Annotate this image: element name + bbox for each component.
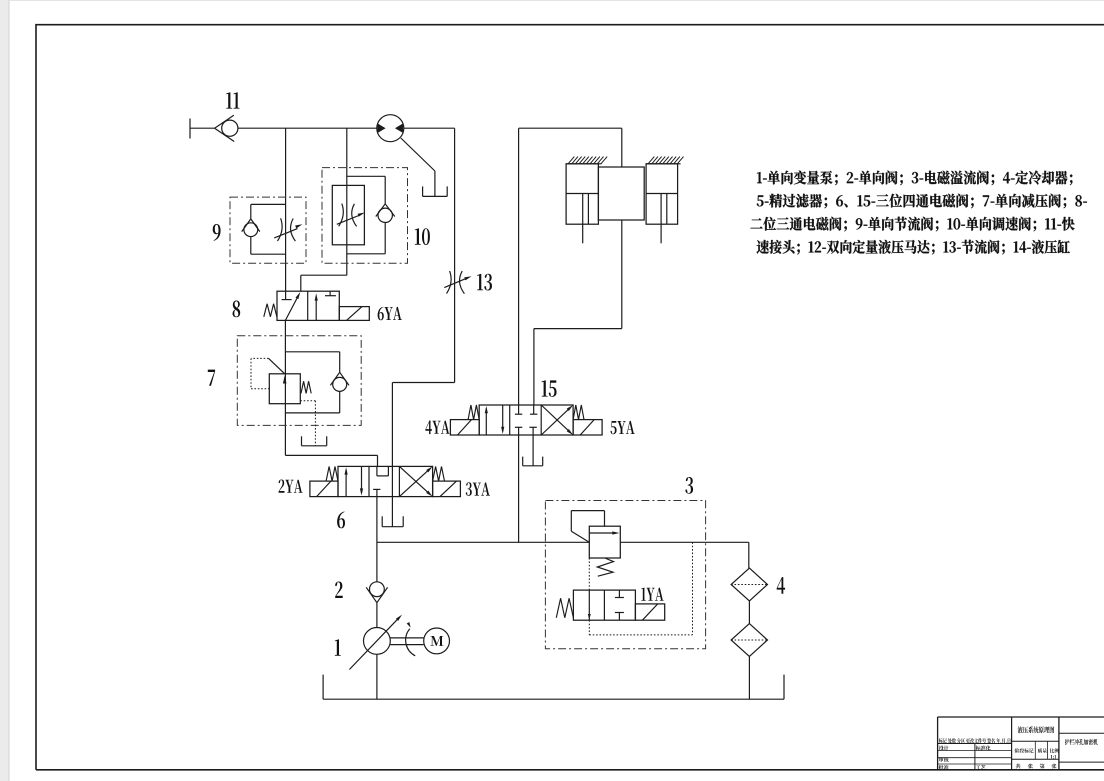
cylinder right anchor hatch xyxy=(646,163,681,165)
cylinder 14 left barrel xyxy=(566,164,598,224)
valve 9 loop xyxy=(251,203,286,205)
cylinder 14 right barrel xyxy=(646,164,678,224)
label 7 xyxy=(208,370,215,386)
title block outer xyxy=(937,717,939,770)
cylinder centre block xyxy=(598,167,644,220)
legend line 4 xyxy=(757,240,1070,255)
title block mid rows xyxy=(1012,740,1059,742)
cooler diamond 4a xyxy=(731,568,767,601)
valve 8 left pos diagonal xyxy=(285,295,298,320)
legend line 3 xyxy=(751,217,1075,232)
valve 15 left pos arrows xyxy=(485,409,487,435)
label 8 xyxy=(233,301,241,318)
valve 15 T tank xyxy=(532,435,534,466)
label 6YA xyxy=(378,307,402,321)
valve 15 right pos cross xyxy=(541,408,570,435)
cylinder top pipe xyxy=(519,127,622,129)
check valve 2 xyxy=(370,582,385,597)
motor drain wire xyxy=(401,138,435,171)
reducing valve spring xyxy=(301,381,311,393)
check valve in 9 xyxy=(242,219,251,232)
enclosure box 7 xyxy=(237,336,361,426)
tank under 7 xyxy=(301,436,303,446)
check valve in 10 xyxy=(376,204,385,217)
enclosure box 10 xyxy=(322,168,408,264)
label 2 xyxy=(335,582,343,599)
label 13 xyxy=(477,274,492,291)
label 6 xyxy=(337,512,345,529)
relief drain dotted xyxy=(588,558,590,590)
valve 6 centre symbols xyxy=(376,466,378,476)
hydraulic motor 12 xyxy=(377,115,404,142)
valve 8 body xyxy=(277,291,339,320)
label 4YA xyxy=(425,421,449,435)
tank under 6 xyxy=(381,516,383,526)
title cells xyxy=(939,746,949,751)
tank manifold xyxy=(322,675,324,700)
legend line 2 xyxy=(757,194,1087,209)
wire through valve 6 to tank xyxy=(391,466,393,526)
valve 6 left pos arrows xyxy=(345,470,347,497)
wire xyxy=(454,128,456,382)
label 4 xyxy=(777,577,785,594)
label M xyxy=(430,636,443,646)
wire xyxy=(748,601,750,624)
pilot drain loop xyxy=(588,620,590,635)
cooler diamond 4b xyxy=(731,624,767,657)
relief pilot xyxy=(604,511,606,527)
title block right rows xyxy=(1059,732,1104,734)
valve 15 B wire xyxy=(533,329,535,405)
valve 6 body xyxy=(338,466,433,496)
valve 15 body xyxy=(479,405,573,435)
label 11 xyxy=(226,92,239,108)
left gray strip xyxy=(0,0,9,781)
quick coupler 11 xyxy=(215,115,234,128)
reducing valve pilot xyxy=(269,358,285,373)
valve 6 right spring xyxy=(433,467,445,482)
rotation arc xyxy=(406,629,416,656)
label 1YA xyxy=(641,588,663,601)
valve 6 right pos cross xyxy=(399,469,429,496)
label 10 xyxy=(415,228,430,245)
label 15 xyxy=(542,380,557,397)
valve 15 right spring xyxy=(573,405,584,420)
reducing valve square xyxy=(269,374,300,404)
valve 10 loop xyxy=(347,175,385,177)
wire xyxy=(748,656,750,699)
title block left rows xyxy=(938,743,1012,745)
valve 8 right pos blocked xyxy=(329,291,331,296)
valve 15 centre blocked ports xyxy=(518,405,520,414)
valve 15 A wire xyxy=(518,128,520,405)
valve 8 spring xyxy=(264,304,277,317)
wire jog xyxy=(392,382,454,384)
label 9 xyxy=(213,224,221,241)
label 1 xyxy=(335,639,341,655)
valve 15 solenoid 5YA xyxy=(573,420,602,435)
drain line 7 xyxy=(300,400,315,402)
cylinder left anchor hatch xyxy=(566,163,601,165)
label 3 xyxy=(685,477,693,494)
valve 15 P wire xyxy=(518,435,520,542)
valve 8 solenoid 6YA box xyxy=(339,307,369,321)
trunk line xyxy=(377,541,589,543)
valve 6 solenoid 3YA xyxy=(433,481,461,497)
label 5YA xyxy=(611,421,635,434)
relief valve square xyxy=(589,526,620,558)
legend line 1 xyxy=(757,171,1072,186)
valve 15 solenoid 4YA xyxy=(450,420,479,435)
valve 15 left spring xyxy=(468,405,479,420)
valve 1YA right pos blocked xyxy=(618,590,620,597)
throttle valve 13 xyxy=(447,271,452,294)
electric motor M xyxy=(424,628,450,654)
cylinder right rod xyxy=(660,194,662,244)
valve 8 right pos arrow xyxy=(315,297,317,320)
valve 1YA spring xyxy=(556,598,573,618)
wire xyxy=(376,497,378,582)
valve 1YA solenoid box xyxy=(635,604,664,620)
wire xyxy=(376,603,378,628)
solenoid valve 1YA body xyxy=(573,590,635,620)
valve 8 left pos blocked port xyxy=(285,291,287,299)
title block verticals xyxy=(1011,717,1013,770)
title small row xyxy=(939,738,1011,743)
cylinder left rod xyxy=(582,194,584,244)
relief valve arrow xyxy=(589,532,614,534)
enclosure box 3 xyxy=(545,501,705,649)
wire xyxy=(238,127,377,129)
throttle in 9 xyxy=(278,218,283,241)
throttle in 10 xyxy=(339,204,344,227)
valve 1YA left pos through line xyxy=(588,590,590,620)
wire xyxy=(284,320,286,455)
relief spring xyxy=(597,558,613,576)
valve 6 left spring xyxy=(326,467,338,482)
pump variable arrow xyxy=(349,619,397,669)
pump 1 circle xyxy=(364,628,391,655)
label 2YA xyxy=(279,480,303,493)
check valve branch in 7 xyxy=(285,351,339,353)
quick coupler 11 end tick xyxy=(189,119,191,139)
pump shaft xyxy=(390,637,423,639)
wire xyxy=(376,654,378,699)
wire xyxy=(285,128,287,291)
page top edge xyxy=(9,0,1104,2)
wire xyxy=(404,127,455,129)
speed valve rect in 10 xyxy=(332,185,364,244)
wire xyxy=(346,128,348,275)
tank under motor xyxy=(422,186,424,196)
wire xyxy=(190,127,215,129)
enclosure box 9 xyxy=(230,197,306,263)
valve 6 solenoid 2YA xyxy=(310,481,338,497)
title text xyxy=(1018,726,1055,733)
wire xyxy=(285,454,377,456)
reducing valve arrow xyxy=(283,376,287,384)
label 3YA xyxy=(466,482,490,496)
